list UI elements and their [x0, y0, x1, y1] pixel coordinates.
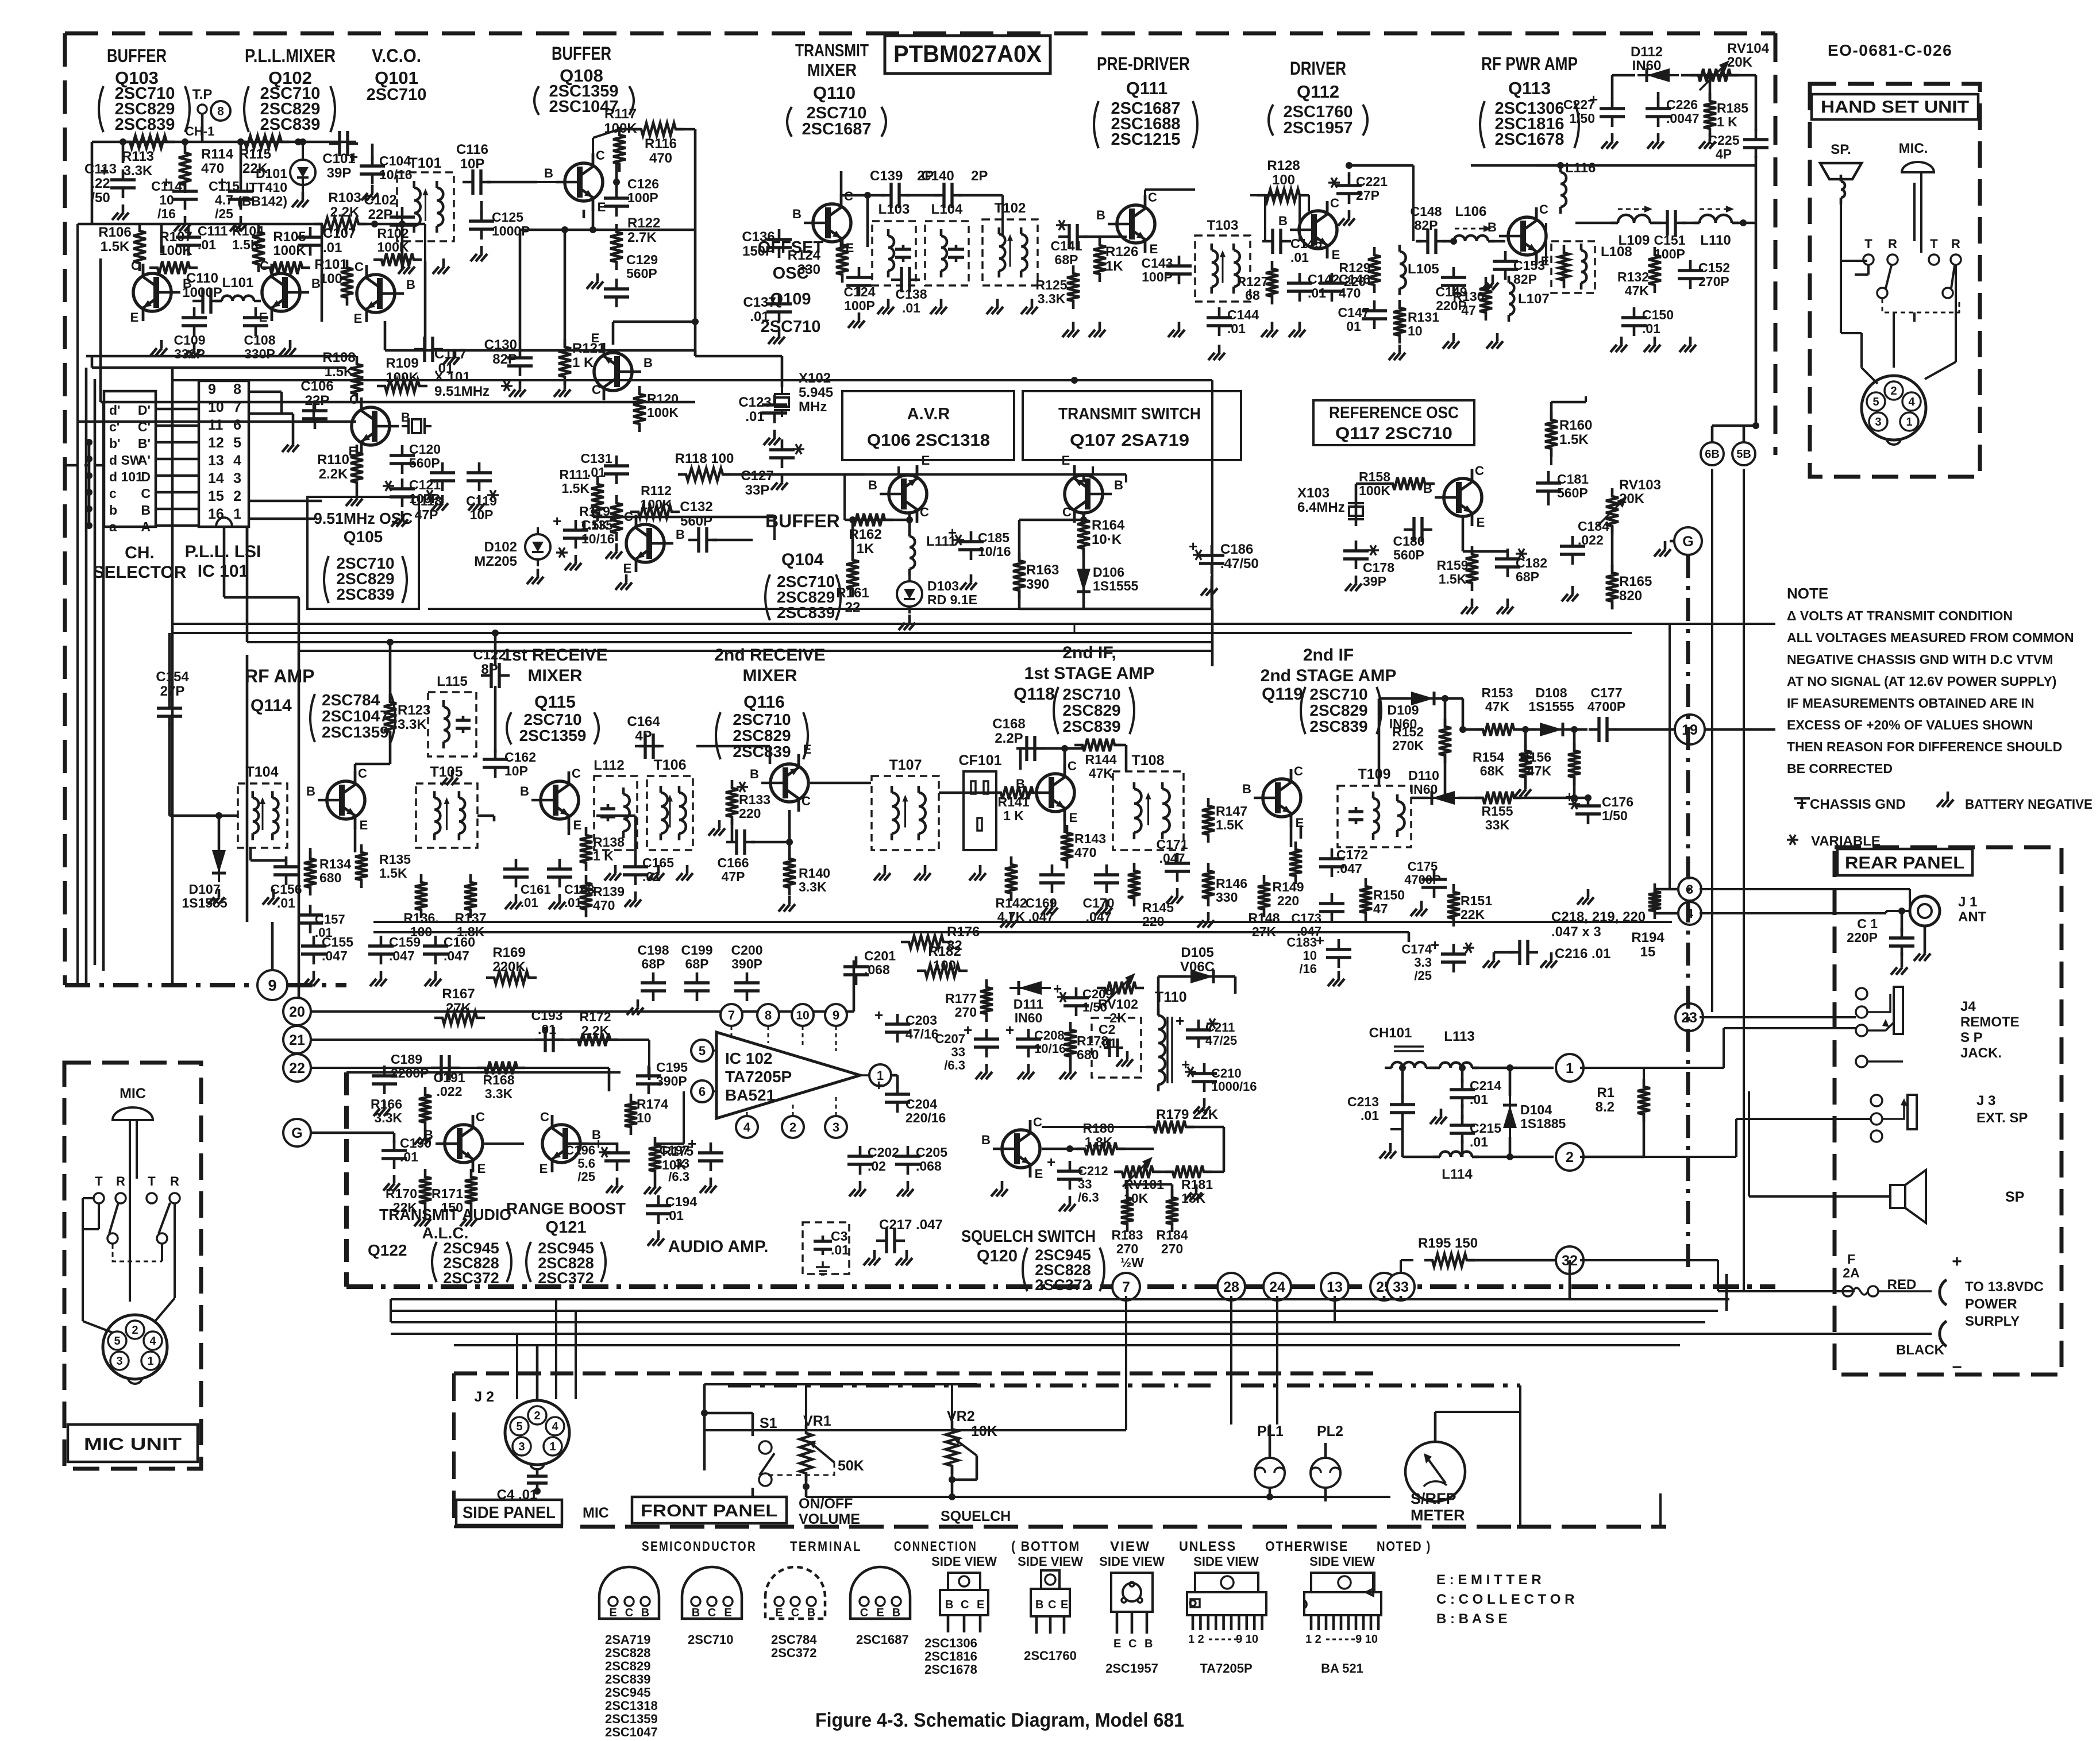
package BA521 [1304, 1554, 1381, 1676]
resistor R175 [644, 1137, 693, 1194]
svg-text:C162: C162 [504, 750, 536, 765]
jack J4 remote [1856, 987, 2020, 1067]
resistor R105 [262, 229, 310, 274]
svg-text:R169: R169 [492, 945, 525, 960]
svg-text:2SC372: 2SC372 [443, 1269, 499, 1287]
svg-text:R152: R152 [1392, 724, 1424, 739]
svg-text:B: B [981, 1133, 991, 1147]
svg-text:5: 5 [233, 435, 241, 451]
svg-text:D106: D106 [1093, 565, 1124, 580]
capacitor C139 [870, 168, 940, 208]
svg-text:C199: C199 [681, 943, 713, 958]
svg-text:BATTERY NEGATIVE: BATTERY NEGATIVE [1965, 797, 2093, 812]
svg-text:C: C [1048, 1599, 1056, 1611]
svg-text:2SC1957: 2SC1957 [1284, 119, 1353, 137]
svg-text:13: 13 [1327, 1279, 1343, 1295]
svg-text:1st RECEIVE: 1st RECEIVE [502, 646, 607, 665]
svg-text:R142: R142 [996, 895, 1027, 910]
svg-text:R184: R184 [1157, 1227, 1188, 1242]
svg-text:C174: C174 [1401, 942, 1432, 956]
svg-text:.047: .047 [444, 948, 469, 963]
svg-text:680: 680 [1077, 1047, 1099, 1062]
svg-text:R145: R145 [1142, 900, 1174, 915]
svg-text:.047: .047 [1336, 861, 1362, 876]
svg-text:1.5K: 1.5K [581, 518, 609, 532]
svg-text:R163: R163 [1026, 562, 1059, 578]
svg-text:T.P: T.P [192, 87, 213, 102]
svg-text:C124: C124 [844, 284, 876, 299]
resistor R156 [1520, 743, 1581, 785]
ground C221 [1338, 210, 1355, 226]
svg-text:R153: R153 [1482, 685, 1513, 700]
ground C153 [1482, 275, 1498, 290]
svg-text:2SC710: 2SC710 [1309, 685, 1367, 703]
svg-text:68: 68 [1245, 288, 1260, 303]
svg-text:L116: L116 [1565, 160, 1596, 176]
svg-text:1S1555: 1S1555 [1528, 699, 1574, 714]
resistor R120 [633, 386, 679, 432]
node 8 [211, 101, 230, 121]
transistor Q120 [981, 1115, 1043, 1181]
svg-text:R102: R102 [377, 226, 409, 241]
resistor R1 [1583, 1068, 1650, 1157]
ground C185 [960, 574, 977, 590]
svg-text:L115: L115 [437, 674, 467, 689]
svg-text:C173: C173 [1291, 911, 1321, 925]
svg-text:2SC710: 2SC710 [523, 711, 581, 728]
resistor R116 [619, 123, 695, 166]
node 4 [1678, 902, 1701, 925]
svg-text:C: C [920, 505, 929, 519]
microphone handset [1902, 162, 1934, 253]
svg-text:UNLESS: UNLESS [1179, 1539, 1236, 1554]
label CH. SELECTOR [93, 543, 187, 582]
svg-text:L112: L112 [594, 758, 624, 773]
capacitor C130 (variable) [484, 337, 533, 391]
wire offset osc links [584, 129, 699, 356]
ground C180-C182 rail [1461, 586, 1578, 614]
capacitor C121 (variable) [383, 477, 441, 507]
svg-text:4P: 4P [635, 728, 652, 744]
label PTBM027A0X title box [885, 36, 1050, 74]
svg-text:C178: C178 [1363, 560, 1394, 575]
svg-text:B: B [945, 1599, 953, 1611]
capacitor C131 [581, 451, 629, 484]
svg-text:C104: C104 [379, 153, 411, 168]
svg-text:SIDE VIEW: SIDE VIEW [1018, 1554, 1083, 1569]
svg-text:2SC1760: 2SC1760 [1024, 1649, 1077, 1663]
svg-text:2SC372: 2SC372 [1035, 1276, 1091, 1294]
label SQUELCH SWITCH Q120 [961, 1227, 1104, 1294]
resistor R104 [232, 223, 265, 272]
ground C150 [1610, 337, 1627, 352]
capacitor C117 [414, 337, 467, 376]
svg-text:9: 9 [208, 381, 216, 397]
resistor R114 [179, 145, 234, 193]
svg-text:82P: 82P [1415, 218, 1438, 233]
svg-text:47P: 47P [722, 869, 745, 884]
resistor R108 [322, 350, 363, 402]
svg-text:C177: C177 [1591, 685, 1623, 700]
svg-text:.01: .01 [1361, 1108, 1379, 1123]
svg-text:.0047: .0047 [1666, 111, 1700, 126]
wire main unit dashed border top [65, 32, 1775, 36]
resistor R178 [1059, 1022, 1108, 1079]
svg-text:CF101: CF101 [958, 752, 1001, 769]
capacitor C214 [1450, 1078, 1501, 1108]
capacitor C165 [623, 855, 674, 907]
svg-text:Q110: Q110 [813, 83, 856, 103]
IC102 pin 10 [792, 1004, 814, 1026]
capacitor C124 [844, 267, 876, 313]
svg-text:C214: C214 [1470, 1078, 1501, 1093]
resistor R117 [604, 106, 637, 172]
svg-text:1: 1 [233, 506, 241, 522]
svg-text:R125: R125 [1036, 277, 1068, 292]
ground C130 [509, 381, 526, 397]
ground R110 [346, 491, 363, 506]
svg-text:3.3K: 3.3K [398, 717, 427, 732]
svg-text:RANGE BOOST: RANGE BOOST [506, 1200, 626, 1218]
svg-text:B: B [807, 1607, 815, 1619]
svg-text:E: E [724, 1607, 731, 1619]
resistor R131 [1393, 300, 1439, 343]
resistor R182 [917, 944, 968, 977]
capacitor C174 [1401, 936, 1474, 983]
transistor Q117 [1423, 464, 1485, 530]
transformer T105 [416, 764, 477, 848]
resistor R136 [403, 874, 438, 939]
svg-text:C203: C203 [905, 1013, 937, 1028]
transistor Q103 [130, 258, 192, 325]
svg-text:1.5K: 1.5K [101, 239, 130, 254]
capacitor C201 [843, 948, 896, 985]
svg-text:C129: C129 [626, 252, 658, 267]
capacitor C215 [1450, 1115, 1501, 1149]
svg-text:4700P: 4700P [1587, 699, 1626, 714]
svg-text:2SC710: 2SC710 [1062, 685, 1120, 703]
svg-text:C197: C197 [659, 1143, 689, 1157]
svg-text:2SC784: 2SC784 [771, 1632, 817, 1647]
resistor R143 [1061, 825, 1106, 868]
capacitor C225 [1708, 129, 1768, 161]
transformer T104 [238, 764, 287, 848]
svg-text:C185: C185 [978, 530, 1009, 545]
svg-text:L114: L114 [1442, 1167, 1473, 1182]
svg-text:R149: R149 [1273, 879, 1304, 894]
inductor L113 [1433, 1029, 1479, 1068]
svg-text:E: E [1477, 515, 1485, 530]
node 20 [283, 998, 311, 1025]
svg-text:2SC829: 2SC829 [733, 727, 791, 744]
svg-text:R182: R182 [928, 944, 961, 959]
svg-text:AT NO SIGNAL (AT 12.6V POWER S: AT NO SIGNAL (AT 12.6V POWER SUPPLY) [1787, 674, 2056, 689]
svg-text:TRANSMIT: TRANSMIT [795, 40, 869, 60]
wire audio out nets [1158, 976, 1235, 1016]
svg-text:B: B [868, 478, 877, 492]
svg-text:EO-0681-C-026: EO-0681-C-026 [1828, 41, 1952, 59]
capacitor C141 (variable) [1051, 220, 1120, 267]
svg-text:47: 47 [1461, 303, 1476, 318]
capacitor C177 [1587, 685, 1626, 742]
resistor R140 [779, 851, 830, 912]
svg-text:.01: .01 [1099, 1036, 1117, 1051]
svg-text:D101: D101 [256, 166, 287, 181]
label NOTE block [1787, 585, 2074, 776]
svg-text:R131: R131 [1408, 310, 1439, 325]
wire RF amp nets [169, 630, 635, 860]
svg-text:C161: C161 [521, 882, 551, 897]
svg-text:R123: R123 [398, 702, 430, 718]
wire left bus verticals [78, 224, 322, 1012]
svg-text:15: 15 [1640, 944, 1656, 960]
label BUFFER Q108 [534, 43, 634, 116]
zener D103 [897, 574, 977, 613]
capacitor C118 (variable) [411, 462, 455, 522]
svg-text:C181: C181 [1557, 472, 1589, 487]
svg-text:10/16: 10/16 [379, 167, 413, 182]
svg-text:390P: 390P [656, 1074, 687, 1088]
svg-text:/25: /25 [1414, 968, 1432, 983]
transistor Q105 [349, 392, 410, 458]
svg-text:C: C [540, 1110, 549, 1124]
svg-text:2.2P: 2.2P [995, 731, 1023, 746]
ground Q120 [991, 1181, 1008, 1196]
wire q109 bottom rail [272, 505, 775, 970]
svg-text:1000/16: 1000/16 [1211, 1079, 1257, 1094]
transistor Q104 [623, 509, 685, 576]
wire front panel dashed border [454, 1373, 1517, 1527]
svg-text:2SC1318: 2SC1318 [605, 1698, 658, 1713]
ground T106 a [648, 865, 664, 881]
capacitor C207 [935, 1021, 999, 1079]
svg-text:33P: 33P [745, 482, 770, 498]
svg-text:.01: .01 [538, 1022, 556, 1037]
svg-text:B: B [750, 767, 759, 781]
svg-text:BUFFER: BUFFER [552, 43, 611, 64]
svg-text:C217 .047: C217 .047 [879, 1217, 943, 1233]
svg-text:22K: 22K [1461, 907, 1485, 922]
svg-text:33: 33 [951, 1045, 965, 1059]
svg-text:MHz: MHz [799, 399, 827, 415]
wire main bus D [299, 609, 1212, 651]
svg-text:Δ VOLTS AT TRANSMIT CONDITION: Δ VOLTS AT TRANSMIT CONDITION [1787, 608, 2013, 623]
svg-text:68P: 68P [685, 956, 709, 971]
svg-text:c: c [109, 486, 117, 501]
svg-text:1S1885: 1S1885 [1520, 1116, 1566, 1131]
meter S/RFP [1390, 1385, 1520, 1527]
IC102 pin 7 [720, 1004, 742, 1026]
svg-text:FRONT PANEL: FRONT PANEL [641, 1501, 777, 1520]
capacitor C212 [1047, 1153, 1108, 1211]
wire RF out row [1536, 162, 1756, 264]
wire handset internal [1841, 198, 1956, 384]
node 19 [1675, 715, 1705, 744]
svg-text:2SC1687: 2SC1687 [856, 1632, 909, 1647]
svg-text:V06C: V06C [1180, 959, 1215, 975]
svg-text:MIC: MIC [583, 1505, 609, 1521]
svg-text:Q107 2SA719: Q107 2SA719 [1070, 431, 1189, 450]
inductor L110 [1693, 206, 1739, 248]
speaker handset [1820, 163, 1862, 204]
inductor L107 [1509, 276, 1550, 322]
svg-text:C150: C150 [1642, 307, 1674, 322]
capacitor C146 [1319, 272, 1370, 302]
svg-text:.01: .01 [1470, 1134, 1488, 1149]
resistor R151 [1447, 884, 1492, 927]
svg-text:D111: D111 [1014, 997, 1044, 1012]
capacitor C154 [156, 633, 189, 787]
svg-text:100K: 100K [641, 497, 672, 512]
svg-text:+: + [874, 1006, 883, 1024]
wire PLL section box [78, 258, 695, 422]
svg-text:C137: C137 [743, 295, 776, 310]
svg-text:10P: 10P [504, 763, 528, 778]
connector handset [1862, 376, 1926, 445]
svg-text:R116: R116 [645, 136, 677, 152]
svg-text:2SC945: 2SC945 [605, 1685, 651, 1700]
svg-text:2nd STAGE AMP: 2nd STAGE AMP [1261, 666, 1397, 685]
svg-text:C: C [1294, 764, 1303, 778]
svg-text:BUFFER: BUFFER [765, 511, 840, 531]
svg-text:C212: C212 [1078, 1164, 1108, 1178]
svg-text:B: B [424, 1128, 433, 1142]
wire mixer2 nets [639, 746, 871, 859]
svg-text:39P: 39P [327, 165, 352, 181]
ground D101 [292, 192, 309, 207]
package 2SC1760 [1018, 1554, 1083, 1663]
svg-text:MIXER: MIXER [807, 60, 857, 80]
ground C227 [1601, 133, 1618, 149]
svg-text:470: 470 [593, 898, 615, 913]
svg-text:T109: T109 [1358, 766, 1391, 782]
transistor Q112 [1278, 196, 1340, 262]
svg-text:2SC829: 2SC829 [605, 1659, 651, 1673]
ground C113 [112, 204, 129, 220]
svg-text:C155: C155 [322, 935, 353, 949]
svg-text:R155: R155 [1482, 804, 1513, 819]
svg-text:2P: 2P [971, 168, 988, 184]
svg-text:C171: C171 [1157, 837, 1188, 852]
capacitor C213 [1347, 1094, 1415, 1159]
svg-text:E: E [540, 1161, 548, 1176]
label C218 219 220 [1551, 909, 1646, 940]
svg-text:22: 22 [845, 600, 861, 615]
capacitor C4 [497, 1470, 548, 1503]
svg-text:BA 521: BA 521 [1321, 1661, 1363, 1676]
svg-text:B: B [1016, 777, 1025, 791]
svg-text:3: 3 [116, 1355, 122, 1368]
wire bottom bus 5 [454, 1344, 1680, 1346]
resistor R119 [579, 495, 623, 541]
inductor L106 [1447, 204, 1495, 241]
svg-text:EXCESS OF +20% OF VALUES SHOWN: EXCESS OF +20% OF VALUES SHOWN [1787, 717, 2033, 732]
IC102 pin 9 [825, 1004, 847, 1026]
svg-text:Q111: Q111 [1126, 78, 1167, 98]
svg-text:C123: C123 [738, 395, 771, 410]
svg-text:E: E [977, 1599, 984, 1611]
capacitor C132 [680, 499, 753, 553]
svg-text:R1: R1 [1597, 1085, 1615, 1101]
svg-text:220: 220 [739, 806, 761, 821]
ground L115 [441, 770, 458, 785]
svg-text:ITT410: ITT410 [245, 180, 287, 195]
ground C119 [468, 495, 485, 511]
svg-text:E: E [130, 310, 139, 325]
node 5B [1732, 442, 1755, 465]
resistor R165 [1606, 565, 1652, 609]
svg-text:.01: .01 [831, 1242, 849, 1257]
transformer T102 [982, 200, 1038, 285]
svg-text:/25: /25 [577, 1169, 595, 1184]
svg-text:10·K: 10·K [1092, 532, 1122, 547]
svg-text:1.5K: 1.5K [232, 237, 260, 252]
capacitor C107 [298, 226, 356, 256]
ground R122 [587, 273, 603, 289]
svg-text:R130: R130 [1453, 289, 1485, 304]
ground R185 [1699, 133, 1716, 149]
wire power filter nets [1390, 1064, 1554, 1160]
svg-text:ALL VOLTAGES MEASURED FROM COM: ALL VOLTAGES MEASURED FROM COMMON [1787, 630, 2074, 645]
svg-text:C148: C148 [1411, 204, 1442, 219]
svg-text:R170: R170 [386, 1186, 417, 1201]
svg-text:C109: C109 [174, 333, 206, 348]
label PRE-DRIVER Q111 [1094, 53, 1197, 149]
svg-text:SIDE VIEW: SIDE VIEW [931, 1554, 997, 1569]
svg-text:C151: C151 [1654, 233, 1686, 248]
svg-text:C152: C152 [1698, 260, 1730, 275]
label DRIVER Q112 [1269, 58, 1367, 137]
svg-text:68P: 68P [1516, 569, 1539, 584]
resistor R166 [371, 1087, 431, 1145]
label P.L.L. MIXER Q102 [244, 45, 336, 134]
resistor R130 [1453, 277, 1492, 321]
ground C1 [1891, 959, 1908, 975]
svg-text:1.5K: 1.5K [1559, 432, 1589, 447]
svg-text:100K: 100K [386, 370, 419, 385]
svg-text:2SC1687: 2SC1687 [802, 120, 872, 138]
svg-text:2SC829: 2SC829 [1309, 701, 1367, 719]
svg-text:7: 7 [1122, 1279, 1130, 1295]
svg-text:d 101: d 101 [109, 469, 143, 484]
svg-text:NEGATIVE CHASSIS GND WITH D.C: NEGATIVE CHASSIS GND WITH D.C VTVM [1787, 652, 2053, 667]
svg-text:24: 24 [1269, 1279, 1285, 1295]
svg-text:RF AMP: RF AMP [245, 666, 314, 686]
svg-text:HAND SET UNIT: HAND SET UNIT [1821, 98, 1969, 117]
capacitor C185 [948, 524, 1011, 560]
svg-text:R148: R148 [1249, 910, 1280, 925]
resistor R184 [1157, 1190, 1188, 1256]
ground L112 [604, 865, 621, 881]
svg-text:AUDIO AMP.: AUDIO AMP. [668, 1237, 768, 1256]
svg-text:C: C [1330, 196, 1339, 210]
svg-text:.01: .01 [665, 1208, 684, 1223]
svg-text:9: 9 [268, 977, 276, 994]
jack J3 ext sp [1871, 1093, 2028, 1142]
svg-text:C 1: C 1 [1857, 916, 1878, 931]
wire pll-lsi bottom links [224, 402, 322, 609]
svg-text:B: B [520, 784, 529, 798]
capacitor C181 [1536, 472, 1589, 501]
resistor R177 [945, 979, 993, 1022]
wire bottom bus 1 [391, 1298, 1729, 1300]
capacitor C191 [431, 1055, 465, 1099]
svg-text:100: 100 [1272, 172, 1295, 188]
node 2 [1556, 1143, 1583, 1171]
potentiometer VR1 [766, 1413, 864, 1497]
resistor R169 [486, 945, 537, 984]
ground L103 [877, 299, 894, 314]
